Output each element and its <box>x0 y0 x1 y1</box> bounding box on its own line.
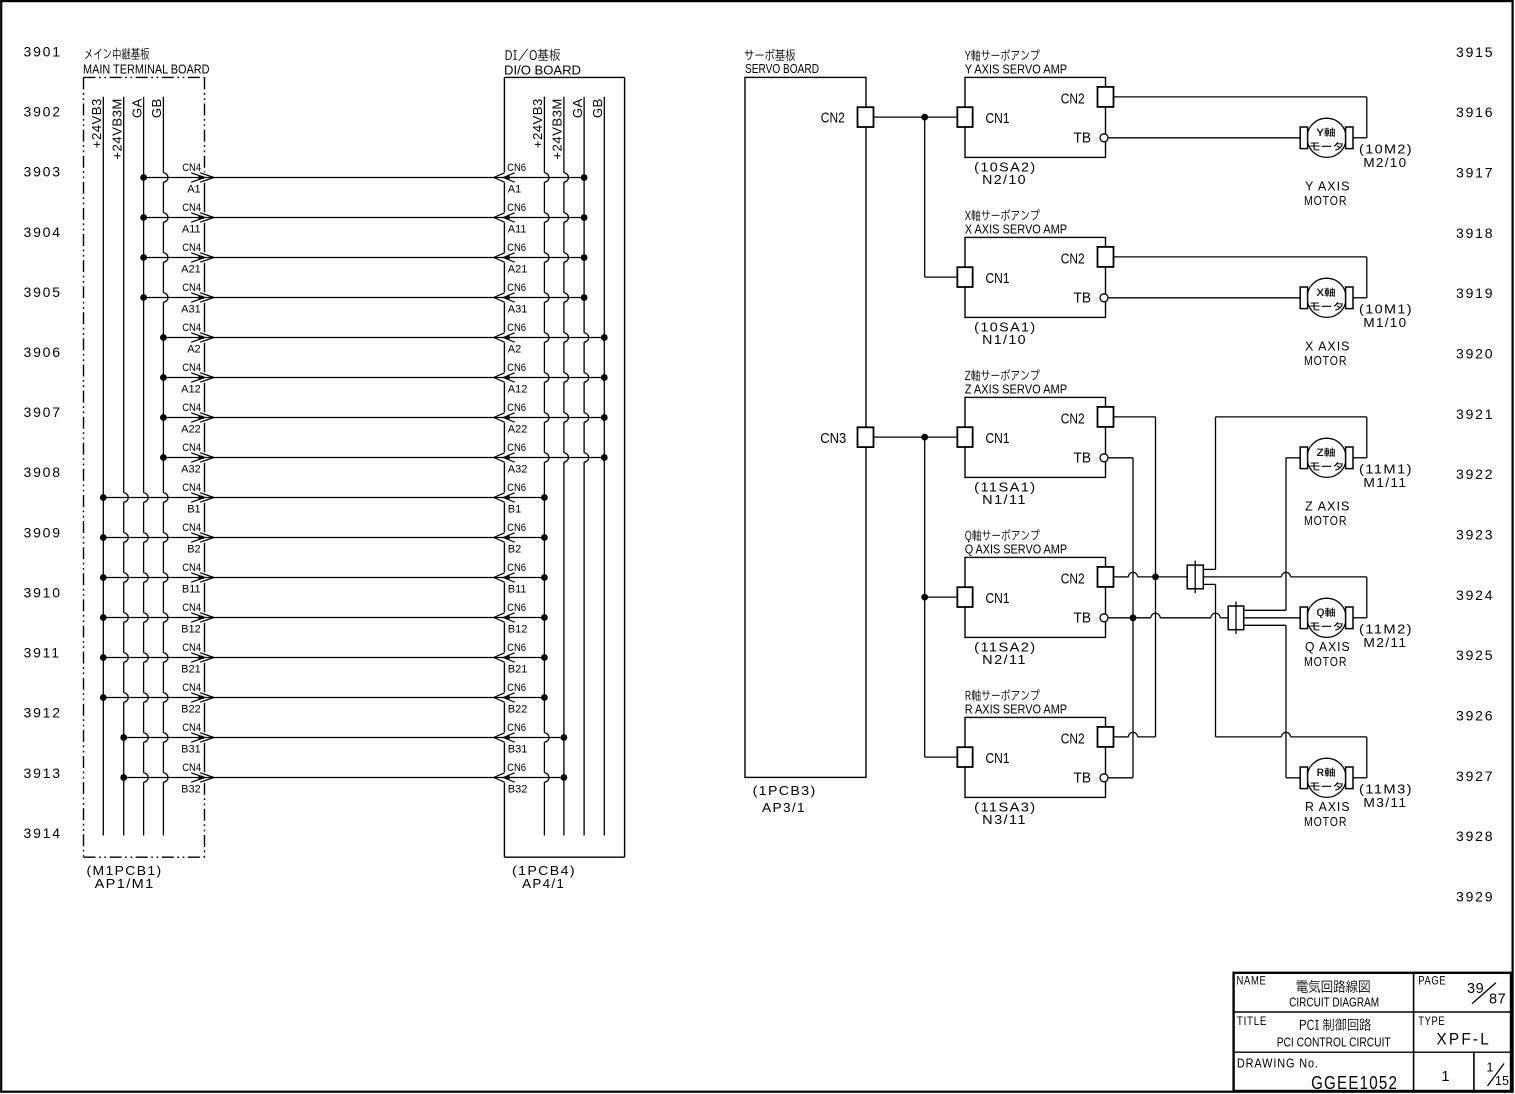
svg-text:B32: B32 <box>508 784 528 796</box>
svg-text:3920: 3920 <box>1456 346 1494 362</box>
svg-text:3925: 3925 <box>1456 647 1494 663</box>
svg-text:3905: 3905 <box>24 284 62 300</box>
svg-text:M3/11: M3/11 <box>1363 796 1407 810</box>
svg-text:3907: 3907 <box>24 404 62 420</box>
title block DRAWING No cell <box>1237 1057 1398 1093</box>
svg-text:CN6: CN6 <box>507 402 526 414</box>
svg-text:CN6: CN6 <box>507 482 526 494</box>
wire R CN2 to CN2 bus <box>1114 732 1156 737</box>
connector CN6 arrow B1 <box>494 482 526 516</box>
node junction at Y CN1 branch <box>921 114 928 121</box>
svg-text:CN6: CN6 <box>507 642 526 654</box>
svg-text:N1/11: N1/11 <box>982 493 1027 507</box>
svg-text:CN4: CN4 <box>182 762 201 774</box>
svg-text:A21: A21 <box>181 264 201 276</box>
svg-text:MOTOR: MOTOR <box>1304 655 1347 669</box>
wire branch to X CN1 <box>925 117 958 277</box>
svg-text:(11M2): (11M2) <box>1359 623 1413 637</box>
svg-text:B22: B22 <box>508 704 528 716</box>
title block frame <box>1234 973 1511 1091</box>
wire Z TB to TB bus <box>1108 457 1133 459</box>
connector CN6 arrow A31 <box>494 282 528 316</box>
R amp terminal TB <box>1074 770 1109 787</box>
wire CP1 lower output to R CN2 row <box>1203 584 1215 737</box>
svg-text:CN6: CN6 <box>507 762 526 774</box>
main board +24VB3 bus line <box>89 97 104 836</box>
svg-text:1: 1 <box>1487 1061 1494 1075</box>
motor Z labels <box>1304 463 1413 528</box>
inline connector CP2 (Q TB) <box>1228 602 1244 635</box>
svg-text:AP3/1: AP3/1 <box>762 801 806 815</box>
wire Z CN2 to CN2 bus <box>1114 416 1156 418</box>
TB bus vertical (Z-Q-R) <box>1132 458 1134 778</box>
svg-text:A11: A11 <box>508 224 527 236</box>
svg-text:3926: 3926 <box>1456 708 1494 724</box>
Y amp terminal TB <box>1074 130 1109 147</box>
svg-text:3910: 3910 <box>24 584 62 600</box>
svg-text:CN2: CN2 <box>821 110 845 127</box>
svg-text:N1/10: N1/10 <box>982 333 1027 347</box>
R axis servo amp U5 box <box>965 689 1106 797</box>
wire A22 (CN4-CN6 row) <box>160 414 608 421</box>
svg-text:3904: 3904 <box>24 224 62 240</box>
svg-text:R AXIS SERVO AMP: R AXIS SERVO AMP <box>965 701 1067 716</box>
connector CN6 arrow A21 <box>494 242 528 276</box>
inline connector CP1 (Q CN2) <box>1187 561 1203 594</box>
svg-text:CN6: CN6 <box>507 362 526 374</box>
wire X CN2 to X motor loop <box>1114 257 1367 298</box>
DI/O board labels <box>504 49 581 78</box>
DI/O board GB bus line <box>590 97 605 836</box>
node junction TB bus at Q row <box>1130 614 1137 621</box>
Z amp connector CN1 <box>957 427 1009 447</box>
node junction CN2 bus at Q row <box>1152 574 1159 581</box>
main board GB bus line <box>149 97 168 836</box>
connector CN4 arrow A22 <box>181 402 214 436</box>
svg-text:B1: B1 <box>187 504 200 516</box>
wire Y CN2 to Y motor loop <box>1114 97 1367 138</box>
wire branch to Q and R CN1 <box>925 437 958 757</box>
svg-text:Q AXIS SERVO AMP: Q AXIS SERVO AMP <box>965 541 1067 556</box>
wire A32 (CN4-CN6 row) <box>160 454 608 461</box>
svg-text:CN4: CN4 <box>182 242 201 254</box>
connector CN6 arrow A1 <box>494 162 526 196</box>
motor R labels <box>1304 783 1413 829</box>
Z amp connector CN2 <box>1061 407 1114 427</box>
wire A11 (CN4-CN6 row) <box>140 214 587 221</box>
DI/O board box outline <box>504 77 624 857</box>
wire A2 (CN4-CN6 row) <box>160 334 608 341</box>
servo board reference (1PCB3) <box>753 784 817 815</box>
svg-text:GB: GB <box>590 98 605 118</box>
connector CN4 arrow B1 <box>182 482 214 516</box>
connector CN4 arrow B22 <box>181 682 214 716</box>
svg-text:CN2: CN2 <box>1061 90 1085 107</box>
wire B22 (CN4-CN6 row) <box>100 694 548 701</box>
svg-text:GA: GA <box>129 98 144 118</box>
svg-text:CN6: CN6 <box>507 602 526 614</box>
svg-text:CN4: CN4 <box>182 442 201 454</box>
connector CN4 arrow A21 <box>181 242 214 276</box>
svg-text:N3/11: N3/11 <box>982 813 1027 827</box>
motor Z axis (11M1) <box>1300 438 1353 477</box>
svg-text:3912: 3912 <box>24 705 62 721</box>
DI/O board +24VB3 bus line <box>530 97 549 836</box>
wire A1 (CN4-CN6 row) <box>140 174 587 181</box>
svg-text:3919: 3919 <box>1456 285 1494 301</box>
svg-text:B31: B31 <box>508 744 528 756</box>
svg-text:CN1: CN1 <box>986 590 1010 607</box>
wire CP1 upper output to Z motor loop <box>1203 417 1367 570</box>
wire B31 (CN4-CN6 row) <box>120 734 567 741</box>
connector CN4 arrow A11 <box>182 202 214 236</box>
svg-text:A2: A2 <box>187 344 200 356</box>
svg-text:DI/O BOARD: DI/O BOARD <box>504 63 581 78</box>
wire B12 (CN4-CN6 row) <box>100 614 548 621</box>
wire B1 (CN4-CN6 row) <box>100 494 548 501</box>
title block TYPE cell <box>1418 1016 1491 1049</box>
Z amp reference （11SA1） <box>974 480 1036 507</box>
X amp connector CN2 <box>1061 247 1114 267</box>
svg-text:(10M2): (10M2) <box>1359 143 1413 157</box>
svg-text:N2/11: N2/11 <box>982 653 1027 667</box>
wire A12 (CN4-CN6 row) <box>160 374 608 381</box>
wire A21 (CN4-CN6 row) <box>140 254 587 261</box>
svg-text:3909: 3909 <box>24 524 62 540</box>
svg-text:GA: GA <box>570 98 585 118</box>
wire CP2 lower output to R motor <box>1244 625 1301 778</box>
svg-text:CN4: CN4 <box>182 322 201 334</box>
DI/O board +24VB3M bus line <box>550 97 569 836</box>
servo board connector CN3 <box>820 427 873 447</box>
svg-text:CN4: CN4 <box>182 402 201 414</box>
svg-text:A1: A1 <box>187 184 200 196</box>
X amp reference （10SA1） <box>974 320 1036 347</box>
svg-text:GB: GB <box>149 98 164 118</box>
svg-text:CN1: CN1 <box>986 270 1010 287</box>
svg-text:Y AXIS: Y AXIS <box>1305 180 1351 194</box>
svg-text:(1PCB3): (1PCB3) <box>753 784 817 798</box>
servo board box outline <box>745 77 866 777</box>
svg-text:TB: TB <box>1074 130 1092 147</box>
svg-text:CN6: CN6 <box>507 442 526 454</box>
svg-text:B22: B22 <box>181 704 201 716</box>
svg-text:CN6: CN6 <box>507 202 526 214</box>
svg-text:CN4: CN4 <box>182 722 201 734</box>
title block sheet 1/15 cell <box>1487 1061 1509 1088</box>
svg-text:3908: 3908 <box>24 464 62 480</box>
svg-text:NAME: NAME <box>1237 976 1267 988</box>
Q amp connector CN1 <box>957 587 1009 607</box>
node junction at Z CN1 branch <box>921 434 928 441</box>
svg-text:B1: B1 <box>508 504 521 516</box>
connector CN4 arrow B11 <box>182 562 214 596</box>
svg-text:M2/11: M2/11 <box>1363 636 1407 650</box>
svg-text:3924: 3924 <box>1456 587 1494 603</box>
svg-text:SERVO BOARD: SERVO BOARD <box>745 61 819 76</box>
connector CN6 arrow A32 <box>494 442 528 476</box>
svg-text:GGEE1052: GGEE1052 <box>1311 1072 1398 1093</box>
wire servo CN3 to Z CN1 <box>874 436 958 438</box>
connector CN6 arrow A2 <box>494 322 526 356</box>
svg-text:CN6: CN6 <box>507 562 526 574</box>
svg-text:CN1: CN1 <box>986 750 1010 767</box>
svg-text:(M1PCB1): (M1PCB1) <box>87 864 163 878</box>
svg-text:3913: 3913 <box>24 765 62 781</box>
svg-text:3911: 3911 <box>24 645 61 661</box>
wire B2 (CN4-CN6 row) <box>100 534 548 541</box>
svg-text:3902: 3902 <box>24 104 62 120</box>
wire B32 (CN4-CN6 row) <box>120 774 567 781</box>
main terminal board box outline (chain line) <box>84 77 205 857</box>
wire CP1 straight output to Q motor loop <box>1203 572 1367 617</box>
svg-text:CN2: CN2 <box>1061 570 1085 587</box>
Y axis servo amp U1 box <box>965 49 1106 157</box>
svg-text:MOTOR: MOTOR <box>1304 815 1347 829</box>
servo board labels <box>745 49 819 76</box>
Y amp connector CN1 <box>957 107 1009 127</box>
svg-text:DRAWING No.: DRAWING No. <box>1237 1057 1319 1071</box>
svg-text:CN3: CN3 <box>820 430 846 447</box>
svg-text:A32: A32 <box>181 464 201 476</box>
wire CP2 upper output to Z motor <box>1244 458 1301 611</box>
svg-text:Z AXIS: Z AXIS <box>1305 500 1351 514</box>
wire Y TB to Y motor <box>1108 137 1301 139</box>
svg-text:+24VB3: +24VB3 <box>530 98 545 148</box>
connector CN6 arrow B2 <box>494 522 526 556</box>
svg-text:A31: A31 <box>508 304 528 316</box>
connector CN4 arrow A1 <box>182 162 214 196</box>
title block NAME cell <box>1237 976 1380 1010</box>
svg-text:CN4: CN4 <box>182 162 201 174</box>
svg-text:Q AXIS: Q AXIS <box>1305 640 1351 654</box>
Z axis servo amp U3 box <box>965 369 1106 477</box>
svg-text:CN4: CN4 <box>182 562 201 574</box>
svg-text:MOTOR: MOTOR <box>1304 194 1347 208</box>
Q amp terminal TB <box>1074 610 1109 627</box>
motor X labels <box>1304 303 1413 368</box>
motor X axis (10M1) <box>1300 278 1353 317</box>
servo board connector CN2 <box>821 107 874 127</box>
svg-text:AP4/1: AP4/1 <box>522 877 565 891</box>
svg-text:CN1: CN1 <box>986 110 1010 127</box>
svg-text:3914: 3914 <box>24 825 62 841</box>
Z amp terminal TB <box>1074 450 1109 467</box>
svg-text:3922: 3922 <box>1456 466 1494 482</box>
svg-text:B12: B12 <box>508 624 528 636</box>
svg-text:CN6: CN6 <box>507 242 526 254</box>
svg-text:XPF-L: XPF-L <box>1437 1030 1492 1049</box>
svg-text:1: 1 <box>1441 1068 1449 1085</box>
connector CN6 arrow B21 <box>494 642 528 676</box>
connector CN4 arrow A31 <box>181 282 214 316</box>
svg-text:3928: 3928 <box>1456 828 1494 844</box>
connector CN4 arrow A12 <box>181 362 214 396</box>
svg-text:3906: 3906 <box>24 344 62 360</box>
svg-text:B21: B21 <box>181 664 201 676</box>
svg-text:3901: 3901 <box>24 43 62 59</box>
svg-text:3917: 3917 <box>1456 165 1494 181</box>
svg-text:CN4: CN4 <box>182 362 201 374</box>
Y amp connector CN2 <box>1061 87 1114 107</box>
connector CN4 arrow A2 <box>182 322 214 356</box>
svg-text:M1/11: M1/11 <box>1363 476 1407 490</box>
connector CN6 arrow B31 <box>494 722 528 756</box>
connector CN4 arrow B21 <box>181 642 214 676</box>
X amp connector CN1 <box>957 267 1009 287</box>
DI/O board GA bus line <box>570 97 589 836</box>
connector CN6 arrow A12 <box>494 362 528 396</box>
svg-text:3929: 3929 <box>1456 889 1494 905</box>
svg-text:CN6: CN6 <box>507 682 526 694</box>
svg-text:CN6: CN6 <box>507 162 526 174</box>
R amp connector CN2 <box>1061 727 1114 747</box>
svg-text:(11M3): (11M3) <box>1359 783 1413 797</box>
svg-text:A32: A32 <box>508 464 528 476</box>
svg-text:A12: A12 <box>181 384 201 396</box>
svg-text:M1/10: M1/10 <box>1363 316 1407 330</box>
svg-text:B2: B2 <box>508 544 521 556</box>
svg-text:X AXIS SERVO AMP: X AXIS SERVO AMP <box>965 221 1067 236</box>
svg-text:CN6: CN6 <box>507 322 526 334</box>
CN2 bus vertical (Z-Q-R) <box>1155 417 1157 737</box>
svg-text:CN4: CN4 <box>182 682 201 694</box>
svg-text:CN4: CN4 <box>182 602 201 614</box>
svg-text:87: 87 <box>1489 992 1506 1008</box>
svg-text:A11: A11 <box>182 224 201 236</box>
svg-text:CN4: CN4 <box>182 482 201 494</box>
main board GA bus line <box>129 97 148 836</box>
svg-text:B21: B21 <box>508 664 528 676</box>
svg-text:A22: A22 <box>181 424 201 436</box>
svg-text:A31: A31 <box>181 304 201 316</box>
DI/O board reference (1PCB4) <box>512 864 576 891</box>
wire R TB to TB bus <box>1108 777 1133 779</box>
wire B11 (CN4-CN6 row) <box>100 574 548 581</box>
svg-text:(11M1): (11M1) <box>1359 463 1413 477</box>
svg-text:A12: A12 <box>508 384 528 396</box>
svg-text:3918: 3918 <box>1456 225 1494 241</box>
main terminal board reference (M1PCB1) <box>87 864 163 891</box>
connector CN4 arrow B12 <box>181 602 214 636</box>
svg-text:PCI CONTROL CIRCUIT: PCI CONTROL CIRCUIT <box>1277 1034 1391 1049</box>
Y amp reference （10SA2） <box>974 160 1036 187</box>
svg-text:CN6: CN6 <box>507 282 526 294</box>
svg-text:CN2: CN2 <box>1061 730 1085 747</box>
svg-text:CIRCUIT DIAGRAM: CIRCUIT DIAGRAM <box>1289 994 1379 1009</box>
motor Q labels <box>1304 623 1413 669</box>
wire X TB to X motor <box>1108 297 1301 299</box>
svg-text:MOTOR: MOTOR <box>1304 514 1347 528</box>
svg-text:Y AXIS SERVO AMP: Y AXIS SERVO AMP <box>965 61 1067 76</box>
connector CN4 arrow B2 <box>182 522 214 556</box>
svg-text:CN1: CN1 <box>986 430 1010 447</box>
wire B21 (CN4-CN6 row) <box>100 654 548 661</box>
svg-text:PAGE: PAGE <box>1418 976 1446 988</box>
motor Y labels <box>1304 143 1413 208</box>
svg-text:TB: TB <box>1074 610 1092 627</box>
wire Q TB to connector CP2 <box>1108 613 1228 618</box>
connector CN6 arrow B32 <box>494 762 528 796</box>
svg-text:CN4: CN4 <box>182 202 201 214</box>
svg-text:MAIN TERMINAL BOARD: MAIN TERMINAL BOARD <box>83 62 210 77</box>
svg-text:3923: 3923 <box>1456 527 1494 543</box>
wire A31 (CN4-CN6 row) <box>140 294 587 301</box>
svg-text:R AXIS: R AXIS <box>1305 800 1351 814</box>
svg-text:CN6: CN6 <box>507 722 526 734</box>
svg-text:3916: 3916 <box>1456 104 1494 120</box>
svg-text:M2/10: M2/10 <box>1363 156 1407 170</box>
X axis servo amp U2 box <box>965 209 1106 317</box>
svg-text:3915: 3915 <box>1456 44 1494 60</box>
Q amp reference （11SA2） <box>974 640 1036 667</box>
motor Y axis (10M2) <box>1300 118 1353 157</box>
svg-text:+24VB3M: +24VB3M <box>109 98 124 159</box>
svg-text:CN4: CN4 <box>182 642 201 654</box>
svg-text:Z AXIS SERVO AMP: Z AXIS SERVO AMP <box>965 381 1067 396</box>
svg-text:CN6: CN6 <box>507 522 526 534</box>
svg-text:B12: B12 <box>181 624 201 636</box>
svg-text:N2/10: N2/10 <box>982 173 1027 187</box>
svg-text:B31: B31 <box>181 744 201 756</box>
X amp terminal TB <box>1074 290 1109 307</box>
R amp connector CN1 <box>957 747 1009 767</box>
right line numbers 3915-3929 <box>1456 44 1494 905</box>
svg-text:B32: B32 <box>181 784 201 796</box>
svg-text:CN2: CN2 <box>1061 410 1085 427</box>
connector CN6 arrow A11 <box>494 202 527 236</box>
Q axis servo amp U4 box <box>965 529 1106 637</box>
motor R axis (11M3) <box>1300 758 1353 797</box>
connector CN6 arrow A22 <box>494 402 528 436</box>
main terminal board labels <box>83 48 210 77</box>
title block PAGE cell <box>1418 976 1506 1008</box>
svg-text:TB: TB <box>1074 290 1092 307</box>
connector CN6 arrow B12 <box>494 602 528 636</box>
connector CN6 arrow B22 <box>494 682 528 716</box>
svg-text:X AXIS: X AXIS <box>1305 340 1351 354</box>
svg-text:MOTOR: MOTOR <box>1304 354 1347 368</box>
connector CN4 arrow A32 <box>181 442 214 476</box>
svg-text:CN4: CN4 <box>182 522 201 534</box>
svg-text:A2: A2 <box>508 344 521 356</box>
svg-text:B11: B11 <box>508 584 527 596</box>
left line numbers 3901-3914 <box>24 43 62 841</box>
R amp reference （11SA3） <box>974 800 1036 827</box>
connector CN6 arrow B11 <box>494 562 527 596</box>
svg-text:B11: B11 <box>182 584 201 596</box>
connector CN4 arrow B32 <box>181 762 214 796</box>
wire servo CN2 to Y CN1 <box>874 116 958 118</box>
svg-text:A22: A22 <box>508 424 528 436</box>
svg-text:3921: 3921 <box>1456 406 1494 422</box>
svg-text:(10M1): (10M1) <box>1359 303 1413 317</box>
connector CN4 arrow B31 <box>181 722 214 756</box>
wire Q CN2 to connector CP1 <box>1114 572 1188 577</box>
svg-text:B2: B2 <box>187 544 200 556</box>
svg-text:+24VB3M: +24VB3M <box>550 98 565 159</box>
svg-text:TB: TB <box>1074 450 1092 467</box>
svg-text:15: 15 <box>1495 1074 1509 1088</box>
main board +24VB3M bus line <box>109 97 128 836</box>
svg-text:AP1/M1: AP1/M1 <box>95 877 155 891</box>
svg-text:TB: TB <box>1074 770 1092 787</box>
motor Q axis (11M2) <box>1300 598 1353 637</box>
title block TITLE cell <box>1237 1016 1391 1050</box>
svg-text:3927: 3927 <box>1456 768 1494 784</box>
svg-text:CN2: CN2 <box>1061 250 1085 267</box>
svg-text:TITLE: TITLE <box>1237 1016 1267 1028</box>
